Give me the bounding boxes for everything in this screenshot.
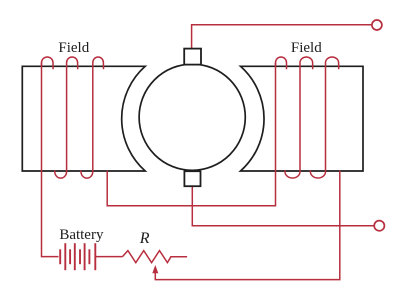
pole piece right (stator) <box>241 66 364 171</box>
battery B1 plates <box>60 243 95 270</box>
pole piece left (stator) <box>22 66 145 171</box>
wire: top brush to output terminal <box>192 25 372 49</box>
terminal (top output, open circle) <box>372 20 382 30</box>
brush (bottom commutator contact) <box>184 171 200 186</box>
armature (rotor circle) <box>139 64 245 170</box>
resistor R (zigzag) <box>123 251 188 263</box>
wire: left coil exit to right coil (lower middle horizontal) <box>107 63 275 206</box>
wire: bottom brush to output terminal <box>192 186 374 226</box>
wire: battery to left field coil riser <box>42 63 59 257</box>
field coil L2 (right, red winding) <box>276 57 339 178</box>
brush (top commutator contact) <box>184 49 201 65</box>
svg-text:Battery: Battery <box>59 227 104 243</box>
svg-text:R: R <box>139 230 150 247</box>
wire: right coil exit down to rheostat wiper line <box>155 171 339 280</box>
field coil L1 (left, red winding) <box>42 57 104 178</box>
wire: battery positive to resistor <box>95 256 122 258</box>
terminal (bottom output, open circle) <box>374 221 384 231</box>
svg-text:Field: Field <box>58 40 89 56</box>
svg-text:Field: Field <box>291 40 322 56</box>
rheostat wiper arrow <box>152 265 158 273</box>
